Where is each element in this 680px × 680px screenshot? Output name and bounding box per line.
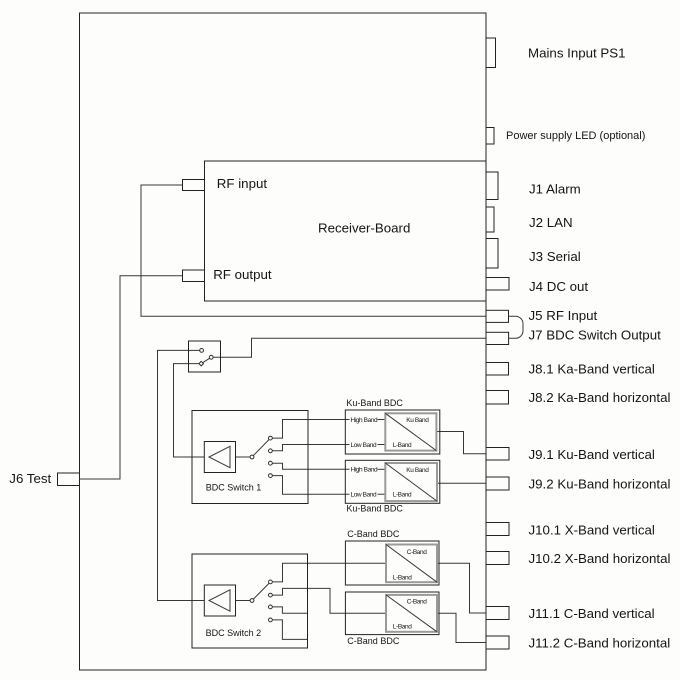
contact s2 c4 bbox=[269, 618, 273, 622]
wire switch right contact to J7 bbox=[211, 338, 486, 357]
wire dash Ku2 Low bbox=[378, 493, 386, 495]
svg-text:L-Band: L-Band bbox=[393, 492, 412, 499]
connector J6 bbox=[58, 473, 80, 486]
svg-text:Receiver-Board: Receiver-Board bbox=[318, 221, 410, 236]
connector Power supply LED bbox=[486, 128, 494, 145]
wire s2 contact3 stub bbox=[270, 607, 307, 613]
wire dash Ku1 High bbox=[378, 419, 386, 421]
contact s2 c2 bbox=[269, 593, 273, 597]
contact s1 c2 bbox=[269, 449, 273, 453]
Ku-Band BDC 1 mixer box bbox=[385, 413, 436, 450]
connector J8.2 bbox=[486, 391, 509, 405]
wire s2 contact2 to C BDC2 bbox=[270, 588, 386, 613]
connector J3 bbox=[486, 239, 498, 269]
Ku-Band BDC 1 diagonal bbox=[385, 413, 436, 450]
svg-text:Low Band: Low Band bbox=[351, 442, 377, 449]
amplifier triangle U2 bbox=[209, 590, 230, 611]
Ku-Band BDC 1 outer box bbox=[345, 410, 440, 454]
svg-text:Low Band: Low Band bbox=[351, 492, 377, 499]
connector J9.2 bbox=[486, 477, 509, 490]
wire Ku BDC1 output to J9.1 bbox=[437, 432, 487, 454]
wire lever switch2 bbox=[252, 582, 270, 601]
connector J10.1 bbox=[486, 523, 509, 536]
svg-text:J10.1 X-Band vertical: J10.1 X-Band vertical bbox=[529, 523, 655, 538]
svg-text:J1 Alarm: J1 Alarm bbox=[529, 182, 581, 197]
wire C BDC2 output to J11.2 bbox=[437, 613, 486, 642]
svg-text:J3 Serial: J3 Serial bbox=[529, 249, 581, 264]
svg-text:J4 DC out: J4 DC out bbox=[529, 279, 588, 294]
wire lever crossover switch bbox=[201, 357, 211, 363]
svg-text:J11.2 C-Band horizontal: J11.2 C-Band horizontal bbox=[529, 636, 671, 651]
svg-text:RF input: RF input bbox=[217, 176, 268, 191]
C-Band BDC 1 diagonal bbox=[386, 545, 437, 583]
wire switch upper contact to BDC Switch 2 amp bbox=[158, 350, 205, 600]
C-Band BDC 1 mixer box bbox=[386, 545, 437, 583]
svg-text:J5 RF Input: J5 RF Input bbox=[529, 308, 598, 323]
wire dash Ku2 High bbox=[378, 468, 386, 470]
svg-text:J11.1 C-Band vertical: J11.1 C-Band vertical bbox=[529, 606, 655, 621]
C-Band BDC 2 diagonal bbox=[386, 595, 437, 632]
svg-text:Ku Band: Ku Band bbox=[406, 467, 429, 474]
svg-text:L-Band: L-Band bbox=[393, 623, 412, 630]
receiver board box bbox=[205, 161, 487, 301]
crossover switch box bbox=[189, 341, 221, 372]
wire s2 contact4 stub bbox=[270, 620, 307, 640]
connector J11.1 bbox=[486, 607, 509, 620]
svg-text:High Band: High Band bbox=[351, 417, 379, 424]
contact crossover right bbox=[209, 355, 213, 359]
svg-text:RF output: RF output bbox=[213, 267, 272, 282]
wire C BDC1 output to J11.1 bbox=[437, 563, 486, 613]
wire Ku BDC2 output to J9.2 bbox=[437, 482, 486, 484]
connector J7 bbox=[486, 332, 509, 344]
svg-text:High Band: High Band bbox=[351, 467, 379, 474]
svg-text:J9.1 Ku-Band vertical: J9.1 Ku-Band vertical bbox=[529, 447, 655, 462]
connector RF input stub bbox=[183, 180, 205, 191]
wire s1 contact4 to Ku BDC2 Low Band bbox=[270, 476, 349, 495]
amplifier box U1 bbox=[204, 442, 235, 473]
connector J8.1 bbox=[486, 363, 509, 376]
wire dash Ku1 Low bbox=[378, 444, 386, 446]
wire s1 contact3 to Ku BDC2 High Band bbox=[270, 463, 349, 469]
connector J2 bbox=[486, 207, 494, 232]
Ku-Band BDC 2 diagonal bbox=[385, 463, 437, 501]
contact s1 c1 bbox=[269, 436, 273, 440]
Ku-Band BDC 2 mixer box bbox=[385, 463, 437, 501]
contact crossover upper bbox=[200, 349, 204, 353]
svg-text:J2 LAN: J2 LAN bbox=[529, 215, 573, 230]
wire amp1 output bbox=[236, 456, 253, 458]
wire RF output to J6 bbox=[80, 276, 183, 479]
svg-text:Ku-Band BDC: Ku-Band BDC bbox=[346, 504, 403, 514]
wire lever switch1 bbox=[252, 438, 270, 457]
connector J11.2 bbox=[486, 636, 509, 649]
svg-text:J10.2 X-Band horizontal: J10.2 X-Band horizontal bbox=[529, 551, 671, 566]
svg-text:Ku Band: Ku Band bbox=[406, 417, 429, 424]
wire s1 contact2 to Ku BDC1 Low Band bbox=[270, 445, 349, 451]
svg-text:J8.2 Ka-Band horizontal: J8.2 Ka-Band horizontal bbox=[529, 390, 671, 405]
amplifier triangle U1 bbox=[209, 446, 230, 467]
wire s1 contact1 to Ku BDC1 High Band bbox=[270, 420, 349, 439]
connector J5 bbox=[486, 310, 509, 322]
wire J5 to J7 loop bbox=[509, 316, 524, 338]
svg-text:Ku-Band BDC: Ku-Band BDC bbox=[346, 398, 403, 408]
contact s2 c1 bbox=[269, 580, 273, 584]
svg-text:C-Band BDC: C-Band BDC bbox=[347, 636, 400, 646]
svg-text:J9.2 Ku-Band horizontal: J9.2 Ku-Band horizontal bbox=[529, 477, 671, 492]
svg-text:Power supply LED (optional): Power supply LED (optional) bbox=[506, 130, 645, 142]
BDC Switch 2 box bbox=[192, 554, 308, 648]
wire RF input to J5 bbox=[141, 185, 486, 316]
svg-text:BDC Switch 2: BDC Switch 2 bbox=[206, 628, 262, 638]
C-Band BDC 2 outer box bbox=[345, 592, 439, 635]
svg-text:J6 Test: J6 Test bbox=[9, 471, 51, 486]
svg-text:J7 BDC Switch Output: J7 BDC Switch Output bbox=[529, 328, 662, 343]
svg-text:C-Band: C-Band bbox=[407, 549, 427, 556]
contact s2 c3 bbox=[269, 605, 273, 609]
contact s1 c4 bbox=[269, 474, 273, 478]
connector J10.2 bbox=[486, 552, 509, 565]
svg-text:Mains Input PS1: Mains Input PS1 bbox=[528, 46, 626, 61]
connector RF output stub bbox=[183, 270, 205, 282]
BDC Switch 1 box bbox=[192, 411, 308, 504]
svg-text:C-Band: C-Band bbox=[407, 599, 427, 606]
contact s1 c3 bbox=[269, 461, 273, 465]
wire s2 contact1 to C BDC1 bbox=[270, 563, 386, 582]
outer enclosure box bbox=[80, 13, 487, 670]
connector J4 bbox=[486, 278, 509, 291]
svg-text:L-Band: L-Band bbox=[393, 442, 412, 449]
C-Band BDC 1 outer box bbox=[345, 541, 439, 585]
contact crossover diamond bbox=[199, 361, 204, 366]
Ku-Band BDC 2 outer box bbox=[345, 460, 440, 503]
svg-text:L-Band: L-Band bbox=[393, 574, 412, 581]
contact pivot switch1 bbox=[250, 455, 254, 459]
amplifier box U2 bbox=[204, 585, 235, 616]
wire switch diamond contact to BDC Switch 1 amp bbox=[174, 364, 205, 457]
svg-text:C-Band BDC: C-Band BDC bbox=[347, 529, 400, 539]
connector Mains Input PS1 bbox=[486, 38, 496, 68]
connector J1 bbox=[486, 172, 498, 200]
connector J9.1 bbox=[486, 448, 509, 461]
svg-text:J8.1 Ka-Band vertical: J8.1 Ka-Band vertical bbox=[529, 362, 655, 377]
contact pivot switch2 bbox=[250, 599, 254, 603]
C-Band BDC 2 mixer box bbox=[386, 595, 437, 632]
svg-text:BDC Switch 1: BDC Switch 1 bbox=[206, 483, 262, 493]
wire amp2 output bbox=[236, 600, 253, 602]
